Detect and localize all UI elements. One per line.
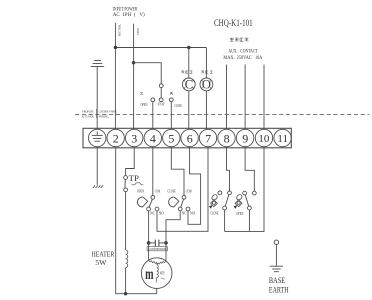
svg-text:NEUTRAL: NEUTRAL	[118, 24, 122, 37]
pushbutton CLOSE contact	[169, 98, 173, 102]
svg-text:OPEN: OPEN	[137, 190, 144, 194]
svg-text:5: 5	[168, 131, 174, 145]
limit switch close COM contact	[182, 195, 186, 199]
wire capacitor left to motor	[148, 243, 150, 260]
limit close NC contact	[178, 207, 182, 211]
node junction capacitor left	[147, 241, 151, 245]
svg-text:CLOSE: CLOSE	[167, 189, 176, 193]
svg-text:CHQ-K1-101: CHQ-K1-101	[214, 19, 253, 29]
svg-text:3: 3	[131, 131, 137, 145]
label chinese open-in-place above O	[202, 71, 213, 74]
svg-text:MAX. 250VAC 10A: MAX. 250VAC 10A	[223, 56, 262, 61]
svg-text:TP: TP	[129, 173, 139, 183]
label chinese kai above OPEN	[140, 93, 143, 95]
terminal earth	[89, 129, 106, 146]
wire terminal 3 to TP	[126, 147, 135, 176]
aux switch close: blade B to C	[225, 195, 229, 207]
ground hatch marks	[93, 185, 103, 188]
wire aux terminal 8 up lead	[226, 65, 228, 130]
aux switch open: common C2	[248, 206, 252, 210]
svg-text:PROPOSE: PROPOSE	[82, 109, 93, 113]
aux switch open: blade A2 to C2	[245, 195, 249, 207]
svg-text:11: 11	[277, 133, 288, 145]
terminal 2	[107, 129, 124, 146]
svg-text:6: 6	[187, 131, 193, 145]
node junction stop branch on LIVE	[132, 61, 135, 64]
pushbutton OPEN contact	[151, 98, 155, 102]
svg-text:m: m	[145, 266, 154, 283]
label chinese passive feedback	[230, 38, 248, 41]
wire terminal 5 to close limit COM	[171, 147, 184, 196]
label chinese guan above CLOSE	[170, 92, 173, 95]
terminal 8	[218, 129, 235, 146]
wire aux open common down	[248, 210, 250, 232]
lamp O open-indicator	[200, 48, 213, 130]
aux switch close: cam arrow	[209, 194, 218, 209]
terminal strip box	[83, 128, 291, 148]
svg-text:COM: COM	[155, 190, 161, 194]
pushbutton STOP bottom contact	[159, 98, 163, 102]
terminal 6	[181, 129, 198, 146]
wire aux terminal 10 up lead	[263, 65, 265, 130]
dashed separator customer/actuator wiring	[75, 114, 369, 116]
label CONDENSER box	[147, 247, 167, 251]
svg-text:NO: NO	[190, 211, 196, 215]
limit open NC contact	[147, 207, 151, 211]
wire close-limit NO to terminal 6	[188, 147, 201, 225]
heater element R1 coil	[126, 250, 128, 268]
capacitor C1 condenser	[149, 240, 166, 247]
wire earth terminal down lead	[96, 147, 98, 185]
cam symbol open limit	[137, 197, 147, 207]
wire heater to neutral rail	[125, 268, 127, 294]
terminal 11	[274, 129, 291, 146]
wire motor bottom to rail	[156, 288, 158, 293]
wire terminal 10 to aux common rail	[225, 147, 264, 232]
wire terminal 4 to open limit COM	[152, 147, 154, 196]
pushbutton STOP top contact	[159, 84, 163, 88]
ground symbol top-left (inverted earth)	[91, 61, 104, 130]
svg-text:CONDENSER: CONDENSER	[148, 247, 166, 251]
blade open limit COM-NC	[149, 199, 152, 207]
svg-text:ACTUATOR: ACTUATOR	[82, 114, 95, 118]
aux switch close: contact A	[218, 191, 222, 195]
wire terminal 2 neutral down lead	[116, 147, 157, 294]
svg-text:O: O	[202, 78, 211, 92]
svg-text:NO: NO	[159, 211, 165, 215]
thermal protector TP blade	[124, 179, 126, 188]
blade close limit COM-NC	[181, 199, 184, 207]
svg-text:EARTH: EARTH	[269, 284, 289, 294]
svg-text:LIVE: LIVE	[136, 28, 140, 36]
wire open-limit NO to terminal 7	[157, 147, 208, 232]
lamp C close-indicator	[182, 48, 195, 130]
svg-text:10: 10	[258, 133, 270, 145]
ground symbol base earth	[270, 266, 283, 272]
wire TP to heater	[125, 192, 127, 250]
text INPUT POWER	[113, 7, 145, 19]
svg-text:8: 8	[224, 131, 230, 145]
base earth terminal circle	[274, 240, 278, 244]
node junction neutral bus	[114, 46, 117, 49]
aux switch open: cam arrow	[234, 194, 243, 209]
svg-text:OPEN: OPEN	[236, 212, 244, 216]
thermal element symbol	[132, 183, 144, 185]
node junction heater-rail	[124, 292, 127, 295]
thermal protector TP top contact	[124, 176, 128, 180]
terminal 10	[255, 129, 272, 146]
wire OPEN button to terminal 4	[152, 102, 154, 130]
svg-text:CUSTOMER’S WIRING.: CUSTOMER’S WIRING.	[99, 109, 118, 113]
aux switch open: contact A2	[243, 191, 247, 195]
wire aux terminal 9 up lead	[244, 65, 246, 130]
svg-text:CLOSE: CLOSE	[174, 104, 182, 108]
svg-text:COM: COM	[186, 189, 192, 193]
limit switch open COM contact	[151, 195, 155, 199]
aux switch close: contact B	[228, 191, 232, 195]
terminal 5	[163, 129, 180, 146]
pushbutton STOP blade	[160, 88, 162, 98]
svg-text:2: 2	[113, 131, 119, 145]
wire base earth lead	[275, 244, 277, 265]
wire close-limit NC to capacitor right node	[166, 211, 180, 243]
wire terminal 8 to aux close switch	[227, 147, 230, 191]
label HEATER 5W	[92, 250, 115, 268]
svg-text:WIRING.: WIRING.	[99, 114, 110, 118]
svg-text:AUX. CONTACT: AUX. CONTACT	[228, 49, 257, 54]
svg-text:NC: NC	[182, 211, 188, 215]
terminal 7	[199, 129, 216, 146]
thermal protector TP bottom contact	[124, 188, 128, 192]
separator tick between wiring labels	[96, 109, 98, 118]
svg-text:9: 9	[242, 131, 248, 145]
svg-text:7: 7	[205, 131, 211, 145]
terminal 3	[126, 129, 143, 146]
label chinese close-in-place above C	[182, 71, 193, 74]
terminal 4	[144, 129, 161, 146]
svg-text:5W: 5W	[95, 258, 107, 267]
node junction capacitor right	[164, 241, 168, 245]
wire neutral bus to lamps	[115, 47, 206, 49]
wire open-limit NC to capacitor left node	[148, 211, 150, 243]
wire capacitor right to motor	[165, 243, 167, 261]
motor M1	[141, 258, 172, 289]
node junction C lamp tap	[187, 46, 190, 49]
wire terminal 9 to aux open switch	[245, 147, 254, 192]
aux switch close: common C	[223, 206, 227, 210]
svg-text:AC 1PH ( V): AC 1PH ( V)	[113, 11, 145, 18]
wire NEUTRAL vertical	[114, 23, 116, 130]
svg-text:OPEN: OPEN	[141, 103, 148, 107]
limit open NO contact	[155, 207, 159, 211]
svg-text:C: C	[185, 78, 193, 92]
svg-text:NC: NC	[150, 211, 156, 215]
terminal 9	[236, 129, 253, 146]
svg-text:MTP: MTP	[160, 271, 165, 275]
svg-text:STOP: STOP	[158, 103, 165, 107]
aux switch open: contact B2	[252, 191, 256, 195]
wire LIVE vertical	[133, 24, 135, 130]
label proposed customer wiring	[82, 109, 118, 118]
limit close NO contact	[186, 207, 190, 211]
cam symbol close limit	[169, 197, 179, 207]
svg-text:CLOSE: CLOSE	[210, 212, 219, 216]
wire aux close common down	[224, 210, 226, 232]
wire stop branch	[134, 63, 162, 84]
svg-text:4: 4	[150, 131, 156, 145]
wire CLOSE button to terminal 5	[170, 102, 172, 130]
label BASE EARTH	[269, 275, 289, 294]
